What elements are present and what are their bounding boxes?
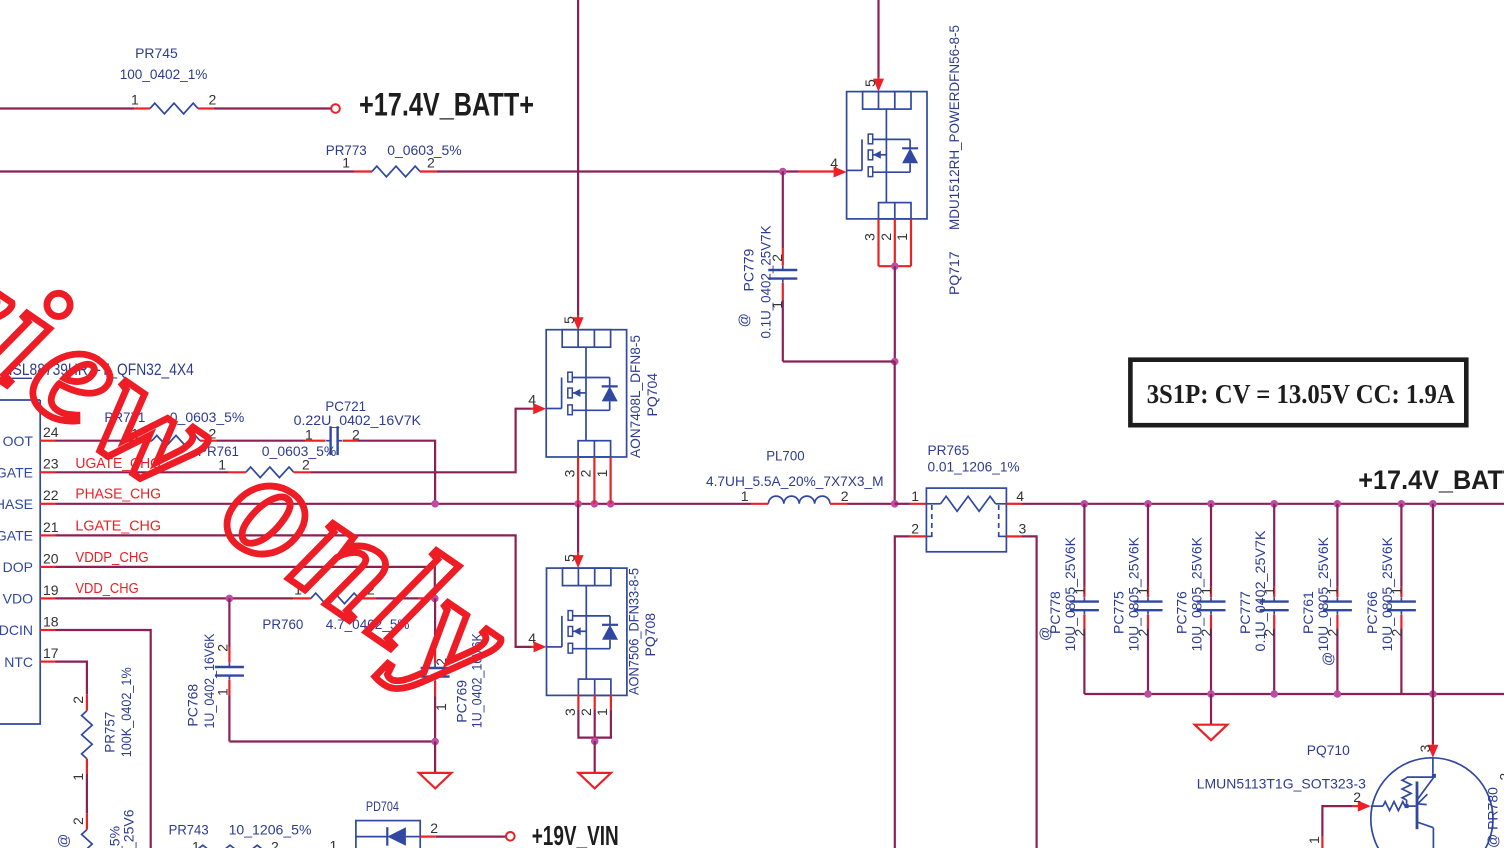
transistor PQ704 AON7408L_DFN8-5: [546, 330, 626, 457]
wire PR771 to PC721: [217, 440, 305, 442]
svg-text:5: 5: [862, 79, 878, 87]
svg-text:2: 2: [209, 92, 217, 108]
svg-text:view only: view only: [0, 211, 546, 731]
svg-text:PQ708: PQ708: [642, 613, 658, 657]
svg-text:1: 1: [594, 469, 610, 477]
svg-text:PC777: PC777: [1237, 591, 1253, 634]
wire phase down to PQ708 drain: [577, 504, 579, 552]
svg-text:PQ704: PQ704: [644, 373, 660, 417]
svg-text:VDD_CHG: VDD_CHG: [75, 581, 138, 597]
svg-text:GATE: GATE: [0, 528, 33, 544]
wire PQ704 source stubs to phase: [577, 457, 579, 504]
junction PC779 bottom: [891, 358, 899, 366]
resistor PR773 0_0603_5%: [326, 142, 462, 177]
svg-text:100K_0402_1%: 100K_0402_1%: [118, 667, 134, 757]
svg-text:3: 3: [562, 469, 578, 477]
svg-text:+17.4V_BATT+: +17.4V_BATT+: [359, 87, 534, 123]
watermark view only: [0, 211, 546, 731]
svg-text:PC776: PC776: [1174, 591, 1190, 634]
svg-text:19: 19: [43, 582, 59, 598]
svg-text:3: 3: [1019, 520, 1027, 536]
svg-text:2: 2: [578, 469, 594, 477]
wire PHASE row: [56, 503, 752, 505]
svg-text:4.7UH_5.5A_20%_7X7X3_M: 4.7UH_5.5A_20%_7X7X3_M: [706, 473, 884, 489]
svg-text:PR765: PR765: [928, 442, 970, 458]
svg-text:PQ710: PQ710: [1307, 742, 1350, 758]
svg-text:1: 1: [741, 488, 749, 504]
wire NTC row: [56, 662, 87, 695]
svg-text:PC766: PC766: [1364, 591, 1380, 634]
resistor PR743 10_1206_5% (partial): [169, 821, 312, 848]
svg-text:PD704: PD704: [366, 798, 399, 814]
svg-text:PC761: PC761: [1300, 591, 1316, 634]
wire +17.4V_BATT rail: [1022, 503, 1504, 505]
svg-text:4: 4: [1016, 488, 1024, 504]
svg-text:4: 4: [528, 392, 536, 408]
resistor PR760 4.7_0402_5%: [262, 581, 409, 632]
wire to ground: [434, 742, 436, 773]
junction bus PQ710 column: [1429, 690, 1437, 698]
svg-text:5: 5: [561, 316, 577, 324]
svg-text:3: 3: [862, 233, 878, 241]
svg-text:PR743: PR743: [169, 821, 209, 837]
junction rail PC778: [1081, 500, 1089, 508]
wire vertical +19V to PQ704 drain: [577, 0, 579, 315]
svg-text:GATE: GATE: [0, 465, 33, 481]
svg-text:0.01_1206_1%: 0.01_1206_1%: [928, 459, 1020, 475]
svg-text:1: 1: [769, 301, 785, 309]
svg-text:DCIN: DCIN: [0, 622, 33, 638]
IC pin 20 stub: [40, 566, 55, 568]
svg-text:AON7506_DFN33-8-5: AON7506_DFN33-8-5: [626, 568, 642, 695]
wire PR745 to terminal: [214, 107, 331, 109]
svg-text:1: 1: [1135, 587, 1151, 595]
wire PQ717 source pins junction: [877, 219, 879, 266]
junction rail PQ710 branch: [1429, 500, 1437, 508]
junction bus: [1144, 690, 1152, 698]
ground symbol left: [419, 773, 452, 789]
red lead pin 4 PQ704: [531, 408, 534, 410]
wire BOOT row: [56, 440, 135, 442]
svg-text:1: 1: [1071, 587, 1087, 595]
svg-text:2: 2: [215, 644, 231, 652]
svg-text:22: 22: [43, 487, 59, 503]
capacitor PC768 1U_0402_16V6K: [184, 598, 244, 741]
svg-text:PC768: PC768: [184, 684, 200, 727]
svg-text:1: 1: [1198, 587, 1214, 595]
wire PQ710 base feed: [1322, 806, 1352, 837]
IC pin 17 stub: [40, 660, 55, 662]
capacitor PC766 10U_0805_25V6K: [1364, 504, 1416, 694]
svg-text:1: 1: [594, 708, 610, 716]
svg-text:1: 1: [70, 773, 86, 781]
svg-text:1: 1: [1388, 587, 1404, 595]
wire rail down to PQ710 collector: [1432, 504, 1434, 694]
junction bus: [1270, 690, 1278, 698]
svg-text:PR745: PR745: [135, 45, 178, 61]
wire PC721 to PHASE node: [358, 441, 435, 504]
red lead pin 2 PQ710: [1352, 805, 1359, 807]
svg-text:2: 2: [1198, 629, 1214, 637]
svg-text:5: 5: [562, 554, 578, 562]
wire PR773 to PQ717 gate node: [437, 170, 798, 172]
svg-text:PL700: PL700: [766, 448, 805, 464]
junction rail PC766: [1398, 500, 1406, 508]
svg-text:@: @: [736, 313, 752, 327]
svg-text:2: 2: [1353, 789, 1361, 805]
svg-text:+19V_VIN: +19V_VIN: [532, 820, 619, 848]
svg-text:18: 18: [43, 613, 59, 629]
svg-text:2: 2: [1388, 629, 1404, 637]
junction rail PC775: [1144, 500, 1152, 508]
capacitor PC721 0.22U_0402_16V7K: [294, 398, 422, 455]
svg-text:DOP: DOP: [3, 559, 33, 575]
svg-text:2: 2: [271, 839, 279, 848]
IC pin 21 stub: [40, 534, 55, 536]
svg-text:+17.4V_BATT: +17.4V_BATT: [1358, 465, 1504, 495]
svg-text:0.22U_0402_16V7K: 0.22U_0402_16V7K: [294, 412, 422, 428]
svg-text:100_0402_1%: 100_0402_1%: [120, 66, 208, 82]
junction bus: [1334, 690, 1342, 698]
IC pin 24 stub: [40, 440, 55, 442]
capacitor PC778 10U_0805_25V6K: [1036, 504, 1099, 694]
svg-text:1: 1: [192, 839, 200, 848]
capacitor PC779 0.1U_0402_25V7K: [736, 172, 895, 362]
wire PR757 down: [86, 774, 88, 813]
wire +17.4V_BATT+ net from left edge: [0, 107, 134, 109]
junction rail PC776: [1207, 500, 1215, 508]
svg-text:3S1P: CV = 13.05V CC: 1.9A: 3S1P: CV = 13.05V CC: 1.9A: [1147, 378, 1455, 409]
svg-text:2: 2: [1071, 629, 1087, 637]
svg-text:NTC: NTC: [4, 654, 33, 670]
svg-text:PC775: PC775: [1111, 591, 1127, 634]
wire PR765 pin2 down: [895, 536, 910, 848]
transistor PQ708 AON7506_DFN33-8-5: [547, 568, 627, 695]
wire bus to ground: [1210, 694, 1212, 725]
svg-text:3: 3: [1417, 744, 1433, 752]
wire PQ708 source pins junction: [577, 694, 579, 709]
junction ground node PC769: [431, 738, 439, 746]
wire VDDP row: [56, 567, 435, 599]
ground symbol bus: [1195, 725, 1228, 741]
partial resistor below edge: [55, 809, 136, 848]
wire vertical to PQ717 drain: [877, 0, 879, 77]
capacitor PC769 1U_0402_16V6K: [421, 598, 485, 741]
svg-text:2: 2: [70, 817, 86, 825]
svg-text:1: 1: [330, 838, 338, 848]
capacitor PC776 10U_0805_25V6K: [1174, 504, 1226, 694]
svg-text:21: 21: [43, 519, 59, 535]
svg-text:0_0603_5%: 0_0603_5%: [387, 142, 462, 158]
junction PQ704 source pins: [574, 500, 582, 508]
wire DCIN row down to bottom: [56, 630, 151, 848]
svg-text:4: 4: [528, 630, 536, 646]
red lead pin 4 PQ708: [531, 646, 535, 648]
junction bootstrap node: [431, 500, 439, 508]
wire PQ717 source down to PC779 node: [894, 266, 896, 361]
svg-text:2: 2: [430, 820, 438, 836]
svg-text:3: 3: [562, 708, 578, 716]
annotation box 3S1P: [1130, 360, 1466, 426]
resistor PR761 0_0603_5%: [198, 443, 336, 478]
wire VDD row: [56, 597, 294, 599]
svg-text:0.1U_0402_25V7K: 0.1U_0402_25V7K: [758, 225, 774, 339]
wire PC768 bottom bus: [229, 740, 435, 742]
wire UGATE row: [56, 471, 229, 473]
svg-text:2: 2: [70, 696, 86, 704]
svg-text:2: 2: [1324, 629, 1340, 637]
svg-text:PR757: PR757: [102, 712, 118, 753]
open terminal +19V_VIN: [506, 832, 515, 841]
svg-text:1: 1: [1306, 836, 1322, 844]
svg-text:1: 1: [131, 92, 139, 108]
transistor PQ710 LMUN5113T1G_SOT323-3: [1197, 742, 1504, 848]
svg-text:2: 2: [427, 155, 435, 171]
svg-text:2: 2: [1497, 773, 1504, 781]
svg-text:VDO: VDO: [3, 591, 33, 607]
svg-text:10_1206_5%: 10_1206_5%: [229, 821, 312, 837]
svg-text:HASE: HASE: [0, 496, 33, 512]
svg-text:2: 2: [769, 254, 785, 262]
junction rail PC761: [1334, 500, 1342, 508]
IC U? ISL88739 charger controller box: [0, 400, 40, 724]
svg-text:17: 17: [43, 645, 59, 661]
wire PR760 to VDDP node: [376, 597, 418, 599]
wire LGATE row to PQ708 gate: [56, 535, 532, 647]
svg-text:PQ717: PQ717: [946, 251, 962, 295]
svg-text:AON7408L_DFN8-5: AON7408L_DFN8-5: [627, 335, 643, 458]
svg-text:@: @: [1036, 627, 1052, 641]
wire to ground: [594, 741, 596, 773]
svg-text:1: 1: [911, 488, 919, 504]
inductor PL700 4.7UH_5.5A_20%_7X7X3_M: [706, 448, 884, 504]
svg-text:2: 2: [841, 488, 849, 504]
resistor PR757 100K_0402_1%: [70, 667, 134, 780]
svg-text:1: 1: [215, 688, 231, 696]
svg-text:MDU1512RH_POWERDFN56-8-5: MDU1512RH_POWERDFN56-8-5: [946, 25, 962, 230]
svg-text:_25V6: _25V6: [120, 809, 136, 848]
svg-text:2: 2: [911, 520, 919, 536]
svg-text:2: 2: [1261, 629, 1277, 637]
wire PD704 to +19V_VIN terminal: [436, 835, 506, 837]
open terminal +17.4V_BATT+: [331, 104, 340, 113]
red lead PD704 pin 2: [420, 835, 436, 837]
capacitor PC775 10U_0805_25V6K: [1111, 504, 1163, 694]
svg-text:@ PR780: @ PR780: [1484, 787, 1500, 848]
svg-text:@: @: [55, 834, 71, 848]
svg-text:VDDP_CHG: VDDP_CHG: [75, 550, 148, 566]
red lead pin 5 PQ717: [877, 77, 879, 89]
red stub pin 1 PR780: [1321, 837, 1323, 848]
junction rail PC777: [1270, 500, 1278, 508]
diode PD704: [330, 798, 439, 848]
junction bus: [1207, 690, 1215, 698]
junction VDD node: [431, 595, 439, 603]
svg-text:1: 1: [894, 233, 910, 241]
svg-text:1: 1: [1324, 587, 1340, 595]
IC pin 22 stub: [40, 503, 55, 505]
junction inductor output: [891, 500, 899, 508]
wire PR765 pin3 down: [1022, 536, 1037, 848]
IC pin 18 stub: [40, 629, 55, 631]
red lead pin 5 PQ704: [577, 315, 579, 327]
svg-text:LMUN5113T1G_SOT323-3: LMUN5113T1G_SOT323-3: [1197, 776, 1366, 792]
svg-text:2: 2: [878, 233, 894, 241]
svg-text:20: 20: [43, 550, 59, 566]
svg-text:4: 4: [830, 155, 838, 171]
resistor PR765 0.01_1206_1% current sense: [910, 442, 1027, 552]
svg-text:@: @: [1319, 652, 1335, 666]
junction PC779 tap: [779, 168, 787, 176]
capacitor PC777 0.1U_0402_25V7K: [1237, 504, 1289, 694]
wire PQ717 source node down to inductor output: [894, 362, 896, 504]
svg-text:2: 2: [578, 708, 594, 716]
red lead pin 5 PQ708: [577, 552, 579, 565]
capacitor PC761 10U_0805_25V6K: [1300, 504, 1352, 694]
svg-text:PC779: PC779: [740, 248, 756, 291]
wire battery minus bus: [1084, 693, 1504, 695]
red lead pin 3 PQ710: [1432, 744, 1434, 755]
wire UGATE to PQ704 gate: [311, 409, 531, 473]
wire red lead into PQ717 pin 4: [798, 170, 835, 172]
IC pin 23 stub: [40, 471, 55, 473]
junction PC768 top: [226, 595, 234, 603]
resistor PR745 100_0402_1%: [120, 45, 217, 114]
svg-text:1: 1: [342, 155, 350, 171]
svg-text:2: 2: [1135, 629, 1151, 637]
wire PR773 row from left edge: [0, 170, 354, 172]
transistor PQ717 MDU1512RH_POWERDFN56-8-5: [847, 92, 927, 219]
resistor PR771 0_0603_5%: [104, 409, 244, 446]
ground symbol PQ708: [578, 773, 611, 789]
wire inductor to sense resistor: [848, 503, 895, 505]
IC pin 19 stub: [40, 597, 55, 599]
svg-text:1: 1: [1261, 587, 1277, 595]
